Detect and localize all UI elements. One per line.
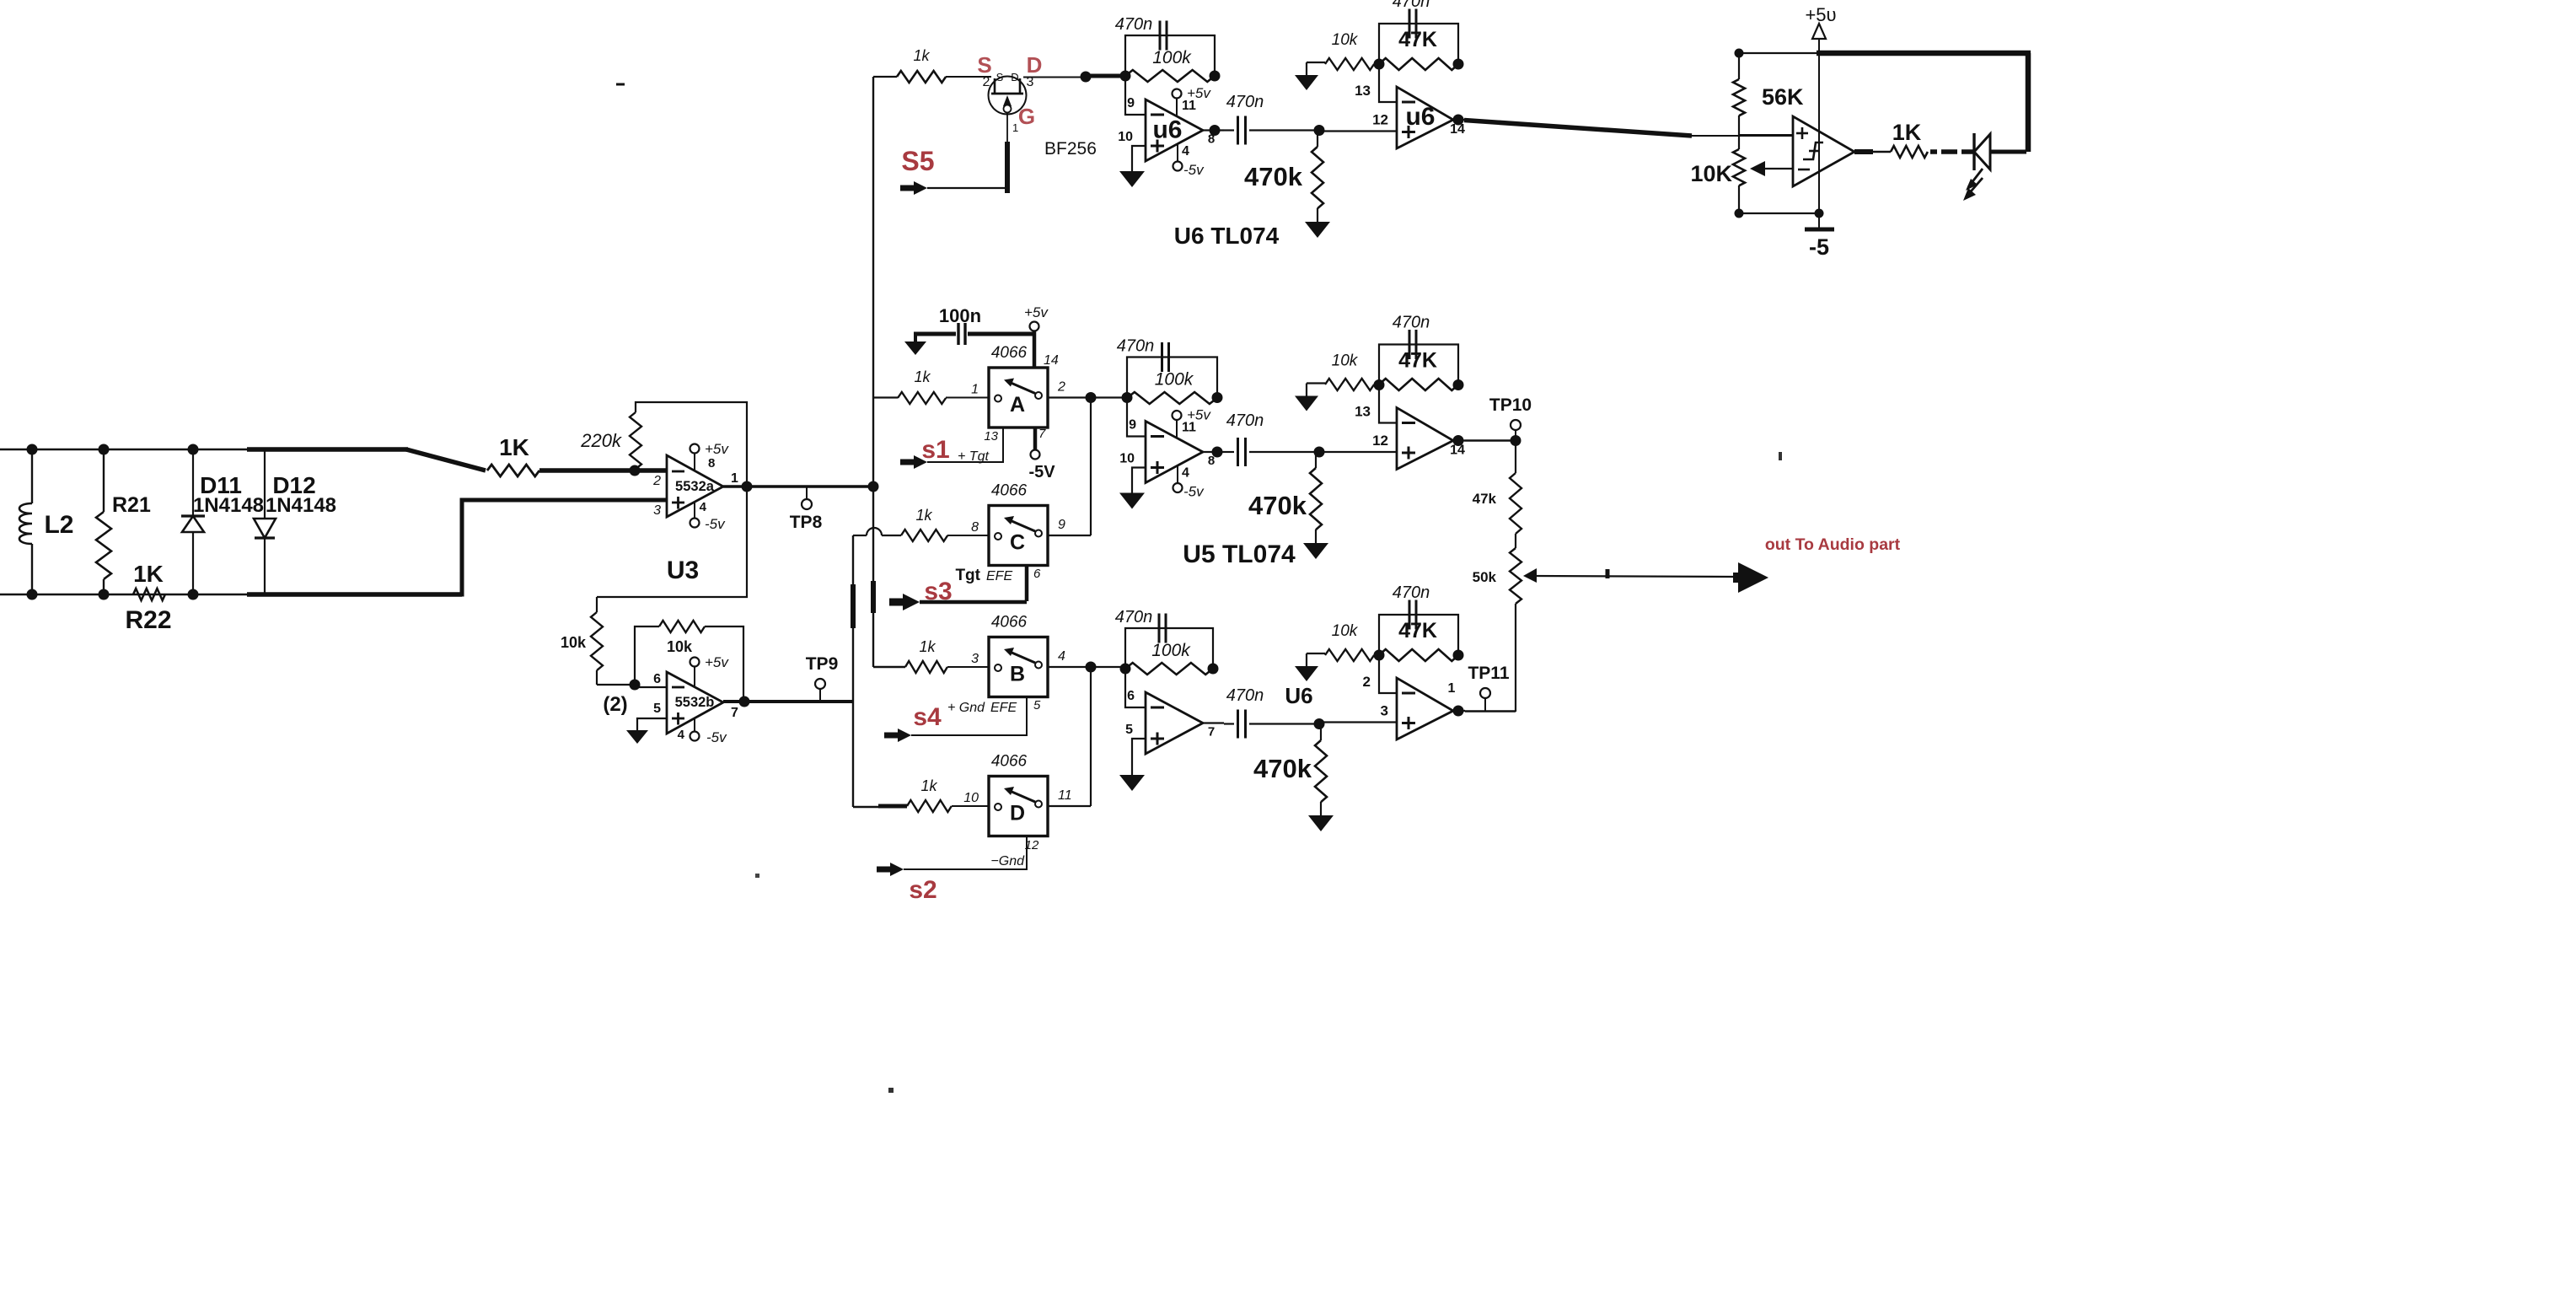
svg-text:S: S [977, 52, 991, 78]
diode D12 1N4148 [264, 449, 266, 519]
capacitor 470n feedback stage2 [1379, 24, 1458, 64]
junction 47K left [1374, 650, 1385, 661]
wire non-inverting to ground [1132, 146, 1146, 171]
op-amp stage1 [1146, 692, 1203, 754]
svg-text:EFE: EFE [990, 701, 1017, 715]
wiper arrow 50k [1523, 568, 1537, 583]
wire inverting input [1125, 669, 1146, 707]
svg-text:4066: 4066 [991, 614, 1028, 632]
test point TP10 [1515, 430, 1516, 441]
svg-text:D: D [1010, 802, 1025, 825]
svg-text:470n: 470n [1117, 337, 1155, 356]
transistor JFET BF256 [989, 77, 1027, 115]
svg-text:100k: 100k [1152, 48, 1192, 67]
wire coupling to junction [1249, 129, 1319, 131]
svg-text:470n: 470n [1226, 686, 1264, 705]
schmitt symbol [1803, 142, 1823, 159]
svg-text:+5v: +5v [1024, 304, 1049, 320]
power -5v U3a pin4 [694, 502, 695, 519]
wire U3a output [723, 485, 874, 487]
capacitor 470n feedback [1159, 21, 1162, 51]
op-amp stage1 [1146, 99, 1203, 161]
svg-text:1k: 1k [914, 368, 931, 385]
svg-text:470n: 470n [1226, 411, 1264, 430]
wire bus C corner to row D [853, 806, 880, 808]
wire coupling to junction [1249, 451, 1319, 453]
capacitor 470n coupling [1224, 129, 1234, 131]
resistor 50k pot [1515, 534, 1516, 548]
svg-text:TP9: TP9 [806, 654, 839, 674]
resistor 47K feedback [1379, 649, 1458, 661]
ground 10k [1306, 653, 1307, 666]
junction 100k left [1122, 392, 1133, 403]
junction 47K right [1453, 59, 1464, 70]
svg-text:470n: 470n [1393, 314, 1430, 332]
svg-text:10k: 10k [667, 638, 693, 655]
op-amp stage2 [1397, 678, 1453, 739]
svg-text:3: 3 [1381, 703, 1388, 719]
resistor 1k JFET row [873, 76, 897, 78]
svg-text:6: 6 [653, 672, 661, 686]
svg-text:+ Gnd: + Gnd [947, 701, 985, 715]
svg-text:1N4148: 1N4148 [193, 494, 264, 517]
svg-text:12: 12 [1372, 433, 1388, 449]
svg-text:5: 5 [653, 702, 661, 716]
wire bus A corner to row B [873, 666, 905, 668]
svg-text:+ Tgt: + Tgt [958, 449, 989, 464]
junction top rail at L2 [27, 444, 38, 455]
junction 470k node [1314, 125, 1325, 136]
arrow s4 [884, 729, 911, 742]
resistor R21 [103, 449, 105, 512]
svg-text:1k: 1k [919, 638, 936, 655]
wire bottom rail [1739, 212, 1819, 214]
svg-text:s1: s1 [921, 436, 949, 464]
junction 100k left [1120, 664, 1131, 675]
junction bottom rail at R21 [99, 589, 110, 600]
svg-text:TP10: TP10 [1489, 395, 1532, 415]
svg-text:4: 4 [678, 728, 685, 742]
svg-text:14: 14 [1450, 444, 1465, 458]
svg-text:4066: 4066 [991, 482, 1028, 500]
capacitor 470n feedback [1161, 342, 1163, 372]
junction 100k right [1208, 664, 1219, 675]
svg-text:13: 13 [1355, 83, 1371, 99]
svg-text:12: 12 [1025, 838, 1039, 852]
wire bottom rail step up [460, 498, 464, 597]
wire 220k feedback top [636, 402, 747, 487]
wire s3 to pin6 [920, 600, 1027, 605]
svg-text:Tgt: Tgt [955, 567, 980, 584]
ground 470k [1303, 543, 1328, 559]
svg-text:2: 2 [1363, 674, 1371, 690]
power +5v U3a pin8 [694, 452, 695, 471]
junction U3b output feedback [739, 696, 750, 707]
wire bus rowA-rowC join [1090, 398, 1092, 536]
resistor 47K feedback [1379, 58, 1458, 70]
svg-text:7: 7 [1038, 427, 1046, 441]
pin 12 stub D [904, 836, 1027, 870]
svg-text:-5v: -5v [1183, 484, 1205, 500]
svg-text:-5: -5 [1809, 234, 1829, 260]
svg-text:14: 14 [1450, 122, 1465, 137]
svg-text:470k: 470k [1244, 162, 1303, 191]
svg-text:10k: 10k [1332, 622, 1359, 640]
svg-text:12: 12 [1372, 112, 1388, 128]
svg-text:11: 11 [1182, 421, 1196, 435]
svg-text:1k: 1k [915, 507, 932, 524]
wire stage2 out to 50k bottom [1465, 710, 1516, 712]
ground -5 [1818, 213, 1820, 229]
switch 4066 D [989, 777, 1048, 836]
svg-text:U6 TL074: U6 TL074 [1174, 223, 1280, 249]
wire input stage2 [1319, 721, 1397, 723]
wire row C out [1048, 535, 1091, 536]
svg-text:5: 5 [1125, 723, 1133, 737]
wire slant to 1K [406, 449, 486, 470]
op-amp stage2 [1397, 87, 1453, 148]
power +5v stage1 [1176, 98, 1178, 116]
LED arrows [1968, 169, 1983, 187]
stray mark 2 [1779, 452, 1782, 460]
svg-text:47K: 47K [1398, 349, 1437, 373]
svg-text:u6: u6 [1152, 116, 1182, 144]
resistor 10k stage2 [1307, 653, 1325, 654]
wire input stage2 [1319, 451, 1397, 453]
svg-text:47K: 47K [1398, 28, 1437, 51]
svg-text:8: 8 [1208, 132, 1215, 147]
svg-text:47K: 47K [1398, 619, 1437, 643]
svg-text:BF256: BF256 [1044, 139, 1097, 159]
resistor 47K feedback [1379, 379, 1458, 390]
arrow s1 [900, 455, 927, 469]
wire non-inverting to ground [1132, 739, 1146, 775]
svg-text:8: 8 [1208, 454, 1215, 468]
svg-text:9: 9 [1127, 96, 1135, 110]
wire to 5532a pin3 [460, 498, 668, 503]
power +5v U3b [694, 665, 695, 687]
ground 470k [1305, 222, 1330, 238]
pin 6 stub C [1025, 566, 1029, 602]
svg-text:3: 3 [971, 652, 979, 666]
switch 4066 C [989, 506, 1048, 566]
wire inverting input [1127, 398, 1146, 437]
arrow s3 [889, 594, 920, 610]
junction bottom rail at D11 [188, 589, 199, 600]
svg-text:11: 11 [1058, 788, 1072, 803]
svg-text:1: 1 [971, 383, 979, 397]
capacitor 470n feedback stage2 [1379, 345, 1458, 385]
svg-text:5532a: 5532a [675, 479, 715, 494]
svg-text:56K: 56K [1762, 84, 1804, 110]
wire U3a to 10k chain [597, 487, 747, 597]
svg-text:1: 1 [1448, 681, 1456, 696]
svg-text:1K: 1K [1892, 120, 1922, 145]
svg-text:4: 4 [1058, 649, 1065, 664]
wire JFET gate thick [1005, 142, 1010, 193]
svg-text:EFE: EFE [986, 569, 1012, 583]
op-amp comparator [1793, 116, 1854, 186]
resistor 1k row B [905, 661, 947, 673]
svg-text:4: 4 [1182, 466, 1189, 481]
svg-text:-5v: -5v [706, 729, 727, 745]
svg-text:+5v: +5v [705, 441, 729, 457]
junction top rail at D11 [188, 444, 199, 455]
wire JFET drain to node [1023, 77, 1086, 78]
svg-text:G: G [1018, 104, 1035, 129]
wire dashes to LED [1930, 149, 1937, 154]
svg-text:out To Audio part: out To Audio part [1765, 535, 1901, 554]
wire stage1 output [1203, 722, 1224, 723]
wire row A out [1048, 396, 1125, 398]
wire 470n feedback box [1125, 628, 1213, 669]
resistor 56K [1738, 53, 1740, 79]
inductor L2 [31, 449, 33, 503]
junction 100k right [1210, 71, 1221, 82]
svg-text:s4: s4 [913, 703, 942, 731]
test point TP9 [819, 689, 821, 702]
wire pin inverting stage2 [1379, 385, 1397, 423]
power -5v stage1 [1177, 466, 1178, 484]
svg-text:C: C [1010, 531, 1025, 555]
junction stage2 output [1453, 706, 1464, 717]
wire stage2 output [1453, 119, 1465, 121]
op-amp U3 5532b [667, 672, 723, 734]
wire stage1 output [1203, 451, 1224, 453]
resistor 1k row D [907, 800, 952, 812]
svg-text:470k: 470k [1253, 754, 1312, 783]
svg-text:1: 1 [1012, 121, 1018, 134]
wire inverting input [1125, 76, 1146, 115]
test point TP8 [806, 487, 808, 499]
resistor 100k feedback [1125, 70, 1215, 82]
wire u6 stage2 out to comparator [1464, 121, 1692, 137]
wire 1k to JFET source [946, 76, 991, 78]
resistor 470k [1320, 724, 1322, 740]
resistor 220k feedback U3a [630, 412, 641, 469]
resistor 1k row C [901, 530, 947, 541]
resistor 100k feedback [1127, 392, 1217, 404]
wire bottom input rail [0, 594, 253, 595]
wire stage1 output [1203, 129, 1224, 131]
power -5v stage1 [1177, 144, 1178, 162]
svg-text:470n: 470n [1115, 608, 1153, 626]
wire non-inverting to ground [1132, 468, 1146, 493]
svg-text:2: 2 [652, 474, 661, 488]
svg-text:7: 7 [731, 706, 738, 720]
junction 47K right [1453, 379, 1464, 390]
op-amp stage2 [1397, 408, 1453, 470]
svg-text:2: 2 [983, 75, 990, 89]
svg-text:1k: 1k [920, 777, 937, 794]
svg-text:5: 5 [1033, 698, 1041, 712]
svg-text:13: 13 [984, 429, 998, 444]
wire +5v to 4066 pin14 [1033, 331, 1037, 368]
ground 470k [1308, 815, 1334, 831]
resistor 10K pot [1738, 135, 1740, 149]
ground stage1 [1119, 493, 1145, 509]
test point TP11 [1484, 698, 1486, 712]
ground U3b pin5 [626, 730, 648, 744]
wire 470n feedback box [1125, 35, 1215, 76]
pin 5 stub B [911, 697, 1027, 736]
junction 47K left [1374, 59, 1385, 70]
wire LED to +5 loop [1990, 150, 2026, 154]
svg-text:11: 11 [1182, 99, 1196, 113]
pin 13 stub A [927, 427, 1003, 462]
power -5v U3b pin4 [694, 718, 695, 732]
wire top rail thin [1739, 52, 1819, 54]
pin 7 -5V A [1033, 427, 1038, 450]
wire pin6 [635, 686, 667, 688]
junction pin6 node (2) [630, 680, 641, 691]
svg-text:1: 1 [731, 471, 738, 486]
svg-text:47k: 47k [1473, 491, 1497, 507]
wire 470n feedback box [1127, 358, 1217, 398]
svg-text:10: 10 [1119, 452, 1135, 466]
svg-text:1N4148: 1N4148 [266, 494, 336, 517]
resistor 1k row A [898, 392, 946, 404]
power +5v stage1 [1176, 420, 1178, 438]
svg-text:2: 2 [1057, 380, 1065, 395]
junction U3a output feedback [742, 481, 753, 492]
junction TP10 [1511, 435, 1521, 446]
capacitor 470n coupling [1224, 723, 1234, 724]
svg-text:14: 14 [1044, 353, 1059, 368]
wire thick top rail segment [247, 447, 408, 452]
svg-text:L2: L2 [44, 511, 73, 539]
wire stage2 output [1453, 710, 1465, 712]
svg-text:9: 9 [1129, 418, 1136, 433]
wire thick mark on bus C [851, 584, 856, 628]
junction row B out [1086, 662, 1097, 673]
svg-text:13: 13 [1355, 404, 1371, 420]
wire bus to row A 1k [873, 396, 898, 398]
wire S5 to gate [927, 187, 1007, 189]
svg-text:9: 9 [1058, 518, 1065, 532]
svg-text:4066: 4066 [991, 753, 1028, 771]
svg-text:R21: R21 [112, 493, 151, 517]
svg-text:100k: 100k [1151, 641, 1191, 660]
wire bus A (5532a out) vertical x=1036 [872, 77, 874, 487]
op-amp stage1 [1146, 422, 1203, 483]
resistor R22 1K [133, 589, 165, 600]
svg-text:470k: 470k [1248, 491, 1307, 520]
resistor 47k [1515, 441, 1516, 474]
svg-text:100k: 100k [1155, 370, 1194, 390]
wire 10k to pin6 [597, 684, 635, 686]
svg-text:1k: 1k [913, 47, 930, 64]
capacitor 470n feedback [1158, 614, 1161, 643]
svg-text:7: 7 [1208, 725, 1215, 739]
wire JFET gate [1006, 112, 1008, 142]
svg-text:(2): (2) [603, 693, 627, 716]
svg-text:470n: 470n [1115, 15, 1153, 34]
svg-text:TP11: TP11 [1468, 664, 1509, 683]
svg-text:S5: S5 [901, 146, 934, 176]
resistor 10k U3 [596, 597, 598, 612]
svg-text:D: D [1011, 71, 1018, 83]
wire thick mark row D [878, 804, 907, 809]
svg-text:4: 4 [700, 500, 707, 514]
svg-text:8: 8 [971, 520, 979, 535]
svg-text:1K: 1K [499, 434, 529, 460]
svg-text:10: 10 [963, 791, 979, 805]
svg-text:−Gnd: −Gnd [990, 854, 1025, 868]
ground stage1 [1119, 775, 1145, 791]
resistor 470k [1315, 452, 1317, 468]
svg-text:S: S [996, 71, 1004, 83]
svg-text:470n: 470n [1393, 0, 1430, 11]
wire stage2 output [1453, 439, 1465, 441]
tick on out wire [1606, 569, 1610, 578]
junction 47K right [1453, 650, 1464, 661]
wire top rail thick [1817, 51, 2031, 56]
wire thick bottom rail segment [247, 592, 462, 597]
wire stage2 out to TP10 node [1465, 439, 1516, 441]
junction 470k node [1314, 718, 1325, 729]
ground 10k [1306, 384, 1307, 396]
resistor 10k stage2 [1307, 382, 1325, 384]
wiper arrow 10K [1750, 161, 1765, 176]
arrow S5 [900, 181, 927, 195]
junction bottom rail at L2 [27, 589, 38, 600]
diode D11 1N4148 [192, 449, 194, 516]
wire input stage2 [1319, 130, 1397, 132]
svg-text:-5v: -5v [1183, 162, 1205, 178]
wire pin inverting stage2 [1379, 655, 1397, 693]
svg-text:+5υ: +5υ [1805, 4, 1836, 25]
arrow out to audio [1733, 562, 1768, 593]
junction drain node [1081, 72, 1092, 83]
wire hop over bus A [867, 528, 882, 535]
svg-text:10K: 10K [1690, 161, 1732, 186]
svg-text:TP8: TP8 [790, 513, 823, 532]
wire bus rowB-rowD join [1090, 667, 1092, 806]
svg-text:+5v: +5v [705, 654, 729, 670]
stray mark 1 [616, 83, 625, 86]
svg-text:A: A [1010, 393, 1025, 417]
wire thick mark on bus A [871, 581, 876, 613]
svg-text:3: 3 [653, 503, 661, 518]
resistor 1K input [487, 465, 539, 476]
wire bus A lower (to row B) [872, 487, 874, 667]
wire thick drain to 100k [1086, 74, 1126, 78]
ground 10k [1306, 62, 1307, 75]
svg-text:D: D [1027, 52, 1043, 78]
resistor 100k feedback [1125, 663, 1213, 675]
junction 100k left [1120, 71, 1131, 82]
wire U3b output [723, 700, 853, 703]
wire comparator output [1854, 149, 1873, 154]
svg-text:4066: 4066 [991, 344, 1028, 362]
junction 100k right [1212, 392, 1223, 403]
wire vertical through comparator [1818, 53, 1820, 213]
svg-text:U6: U6 [1285, 683, 1312, 708]
resistor 10k stage2 [1307, 62, 1325, 63]
junction 47K left [1374, 379, 1385, 390]
junction top rail at R21 [99, 444, 110, 455]
junction pin2 node [630, 465, 641, 476]
svg-text:R22: R22 [125, 606, 171, 634]
svg-text:s2: s2 [909, 876, 936, 904]
resistor 470k [1317, 131, 1318, 147]
junction stage2 output [1453, 435, 1464, 446]
resistor 10k feedback U3b [635, 626, 659, 685]
svg-text:8: 8 [708, 456, 715, 470]
100n cap and +5v for 4066 [914, 334, 917, 341]
switch 4066 B [989, 637, 1048, 697]
